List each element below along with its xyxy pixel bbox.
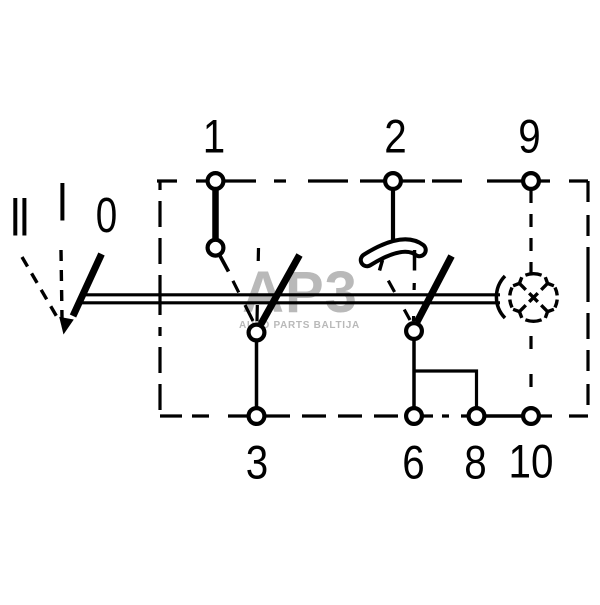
lamp arrow NE — [541, 284, 547, 290]
wire: contact 3 to terminal 3 — [255, 338, 259, 410]
svg-text:9: 9 — [518, 110, 540, 163]
mechanical coupling double line (upper) — [80, 293, 500, 296]
terminal 1 stem — [212, 185, 219, 244]
lamp arrow SE — [541, 305, 547, 311]
wire: contact 6 to terminal 6 — [412, 336, 416, 410]
svg-text:AP3: AP3 — [242, 260, 358, 325]
wire: branch from 6-wire to terminal 8 — [414, 371, 477, 410]
contact 6 dashed vertical throw path to blade right leg — [414, 271, 415, 322]
svg-text:2: 2 — [384, 110, 406, 163]
blade left leg — [380, 260, 383, 271]
net: dashed line lamp to terminal 10 — [529, 322, 532, 408]
position I dashed path (left) — [61, 250, 62, 318]
svg-text:10: 10 — [509, 435, 554, 488]
movable lever of contact 6 — [417, 256, 452, 322]
lamp arrow NW — [520, 284, 526, 290]
contact circle under terminal 1 — [208, 240, 224, 256]
terminal 8 — [469, 408, 485, 424]
svg-text:1: 1 — [203, 110, 225, 163]
actuator arrowhead — [59, 317, 74, 335]
contact circle of lever 6 — [406, 323, 422, 339]
lamp coupling arc — [496, 276, 505, 318]
enclosure top edge: terminal 2 to terminal 9 — [402, 179, 522, 182]
terminal 9 — [523, 173, 539, 189]
enclosure right edge — [586, 181, 589, 416]
contact 3 dashed throw path to terminal 1 finger — [228, 271, 253, 321]
svg-text:3: 3 — [246, 436, 268, 489]
enclosure bottom edge: terminal 3 to terminal 6 — [266, 414, 405, 417]
movable lever of contact 3 — [261, 255, 300, 324]
enclosure top edge: terminal 1 to terminal 2 — [224, 179, 384, 182]
enclosure top edge: corner to terminal 1 — [157, 179, 206, 182]
svg-text:8: 8 — [464, 436, 486, 489]
net: dashed line terminal 9 to lamp — [529, 190, 532, 273]
lamp arrow SW — [520, 305, 526, 311]
watermark AP3 logo — [239, 260, 360, 331]
position II dashed path (left) — [22, 257, 57, 317]
enclosure bottom edge: terminal 10 to right corner — [540, 414, 588, 417]
enclosure top edge: terminal 9 to right corner — [540, 179, 588, 182]
terminal 3 — [249, 408, 265, 424]
lamp L (dashed circle with arrows) — [510, 274, 557, 321]
lamp center cross — [529, 293, 538, 302]
blade right leg — [413, 250, 417, 271]
label II — [15, 198, 24, 236]
lamp rim dashes — [525, 274, 541, 275]
actuator lever (position 0) — [73, 254, 102, 316]
terminal 2 stem — [391, 185, 395, 242]
terminal 2 — [385, 173, 401, 189]
contact circle of lever 3 — [249, 325, 265, 341]
terminal 1 contact finger tail — [219, 254, 229, 272]
contact 6 dashed throw path to blade left leg — [383, 271, 410, 320]
rocker blade of terminal 2 — [367, 246, 420, 260]
wire: solid link terminal 8 to terminal 10 — [483, 414, 525, 417]
svg-text:6: 6 — [402, 436, 424, 489]
enclosure left edge — [158, 181, 161, 416]
svg-text:0: 0 — [96, 189, 117, 244]
mechanical coupling double line (lower) — [76, 301, 500, 304]
enclosure bottom edge: left corner to terminal 3 — [160, 414, 248, 417]
terminal 1 — [208, 173, 224, 189]
contact 3 dashed vertical throw path — [257, 248, 259, 321]
label I — [60, 183, 64, 221]
terminal 6 — [406, 408, 422, 424]
enclosure bottom edge: terminal 6 to terminal 8 — [423, 414, 468, 417]
terminal 10 — [523, 408, 539, 424]
